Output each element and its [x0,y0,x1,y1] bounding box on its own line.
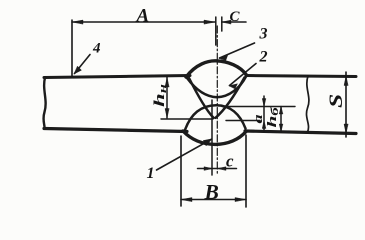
svg-text:2: 2 [259,49,268,66]
dimension A left arrow [72,20,83,24]
leader 4 [75,55,91,74]
upper weld V right side [216,78,245,118]
dimension B line [181,199,246,201]
dimension S top arrow [344,76,348,86]
dimension h_n bottom arrow [165,109,169,119]
leader 2 [230,64,257,86]
left plate bottom surface [44,129,187,132]
leader 1 [157,139,212,170]
h_n bottom extension line [161,118,213,120]
dimension h_b top arrow [279,107,283,115]
left plate break edge [43,78,45,129]
lower weld root cap [183,131,246,144]
svg-text:hб: hб [264,106,280,128]
svg-text:c: c [226,152,234,171]
dimension B left arrow [181,198,192,202]
svg-text:A: A [136,6,150,27]
svg-text:3: 3 [259,26,268,43]
dimension B right extension [245,135,247,207]
weld centerline [216,26,218,175]
right plate bottom surface [245,131,356,134]
svg-text:4: 4 [92,41,101,57]
svg-text:1: 1 [147,165,155,182]
dimension c right arrow [218,167,227,171]
dimension A right arrow [204,20,215,24]
svg-text:B: B [204,180,219,204]
svg-text:a: a [251,114,265,123]
dimension C arrow [222,20,231,24]
dimension C tail line [222,21,246,23]
upper weld cap [186,61,247,77]
dimension A line [72,21,215,23]
dimension h_n top arrow [165,78,169,88]
overlap bottom extension line [226,120,260,122]
upper weld fusion bowl [187,77,246,98]
dimension a top arrow [262,99,266,107]
svg-text:C: C [230,9,241,25]
right plate break line [306,76,308,132]
lower pass axis line [211,100,213,175]
overlap top extension line [222,106,295,108]
dimension a bottom arrow [262,121,266,129]
dimension A extension line left [71,20,73,76]
dimension B left extension [180,136,182,206]
leader 3 [220,43,255,58]
dimension S line [345,72,347,137]
dimension c left arrow [204,167,213,171]
left plate top surface [44,76,190,78]
dimension h_b bottom arrow [279,124,283,132]
dimension h_b line [280,107,282,132]
dimension S bottom arrow [344,124,348,134]
dimension c line [198,168,237,170]
dimension B right arrow [235,198,246,202]
lower weld dome [185,105,246,130]
upper pass axis line [221,17,223,31]
dimension a line [263,96,265,131]
right plate top surface [246,76,356,77]
dimension h_n line [166,77,168,118]
svg-text:S: S [325,94,346,108]
svg-text:hн: hн [152,84,169,107]
centerline top solid segment [215,17,217,45]
upper weld V left side [189,78,214,118]
